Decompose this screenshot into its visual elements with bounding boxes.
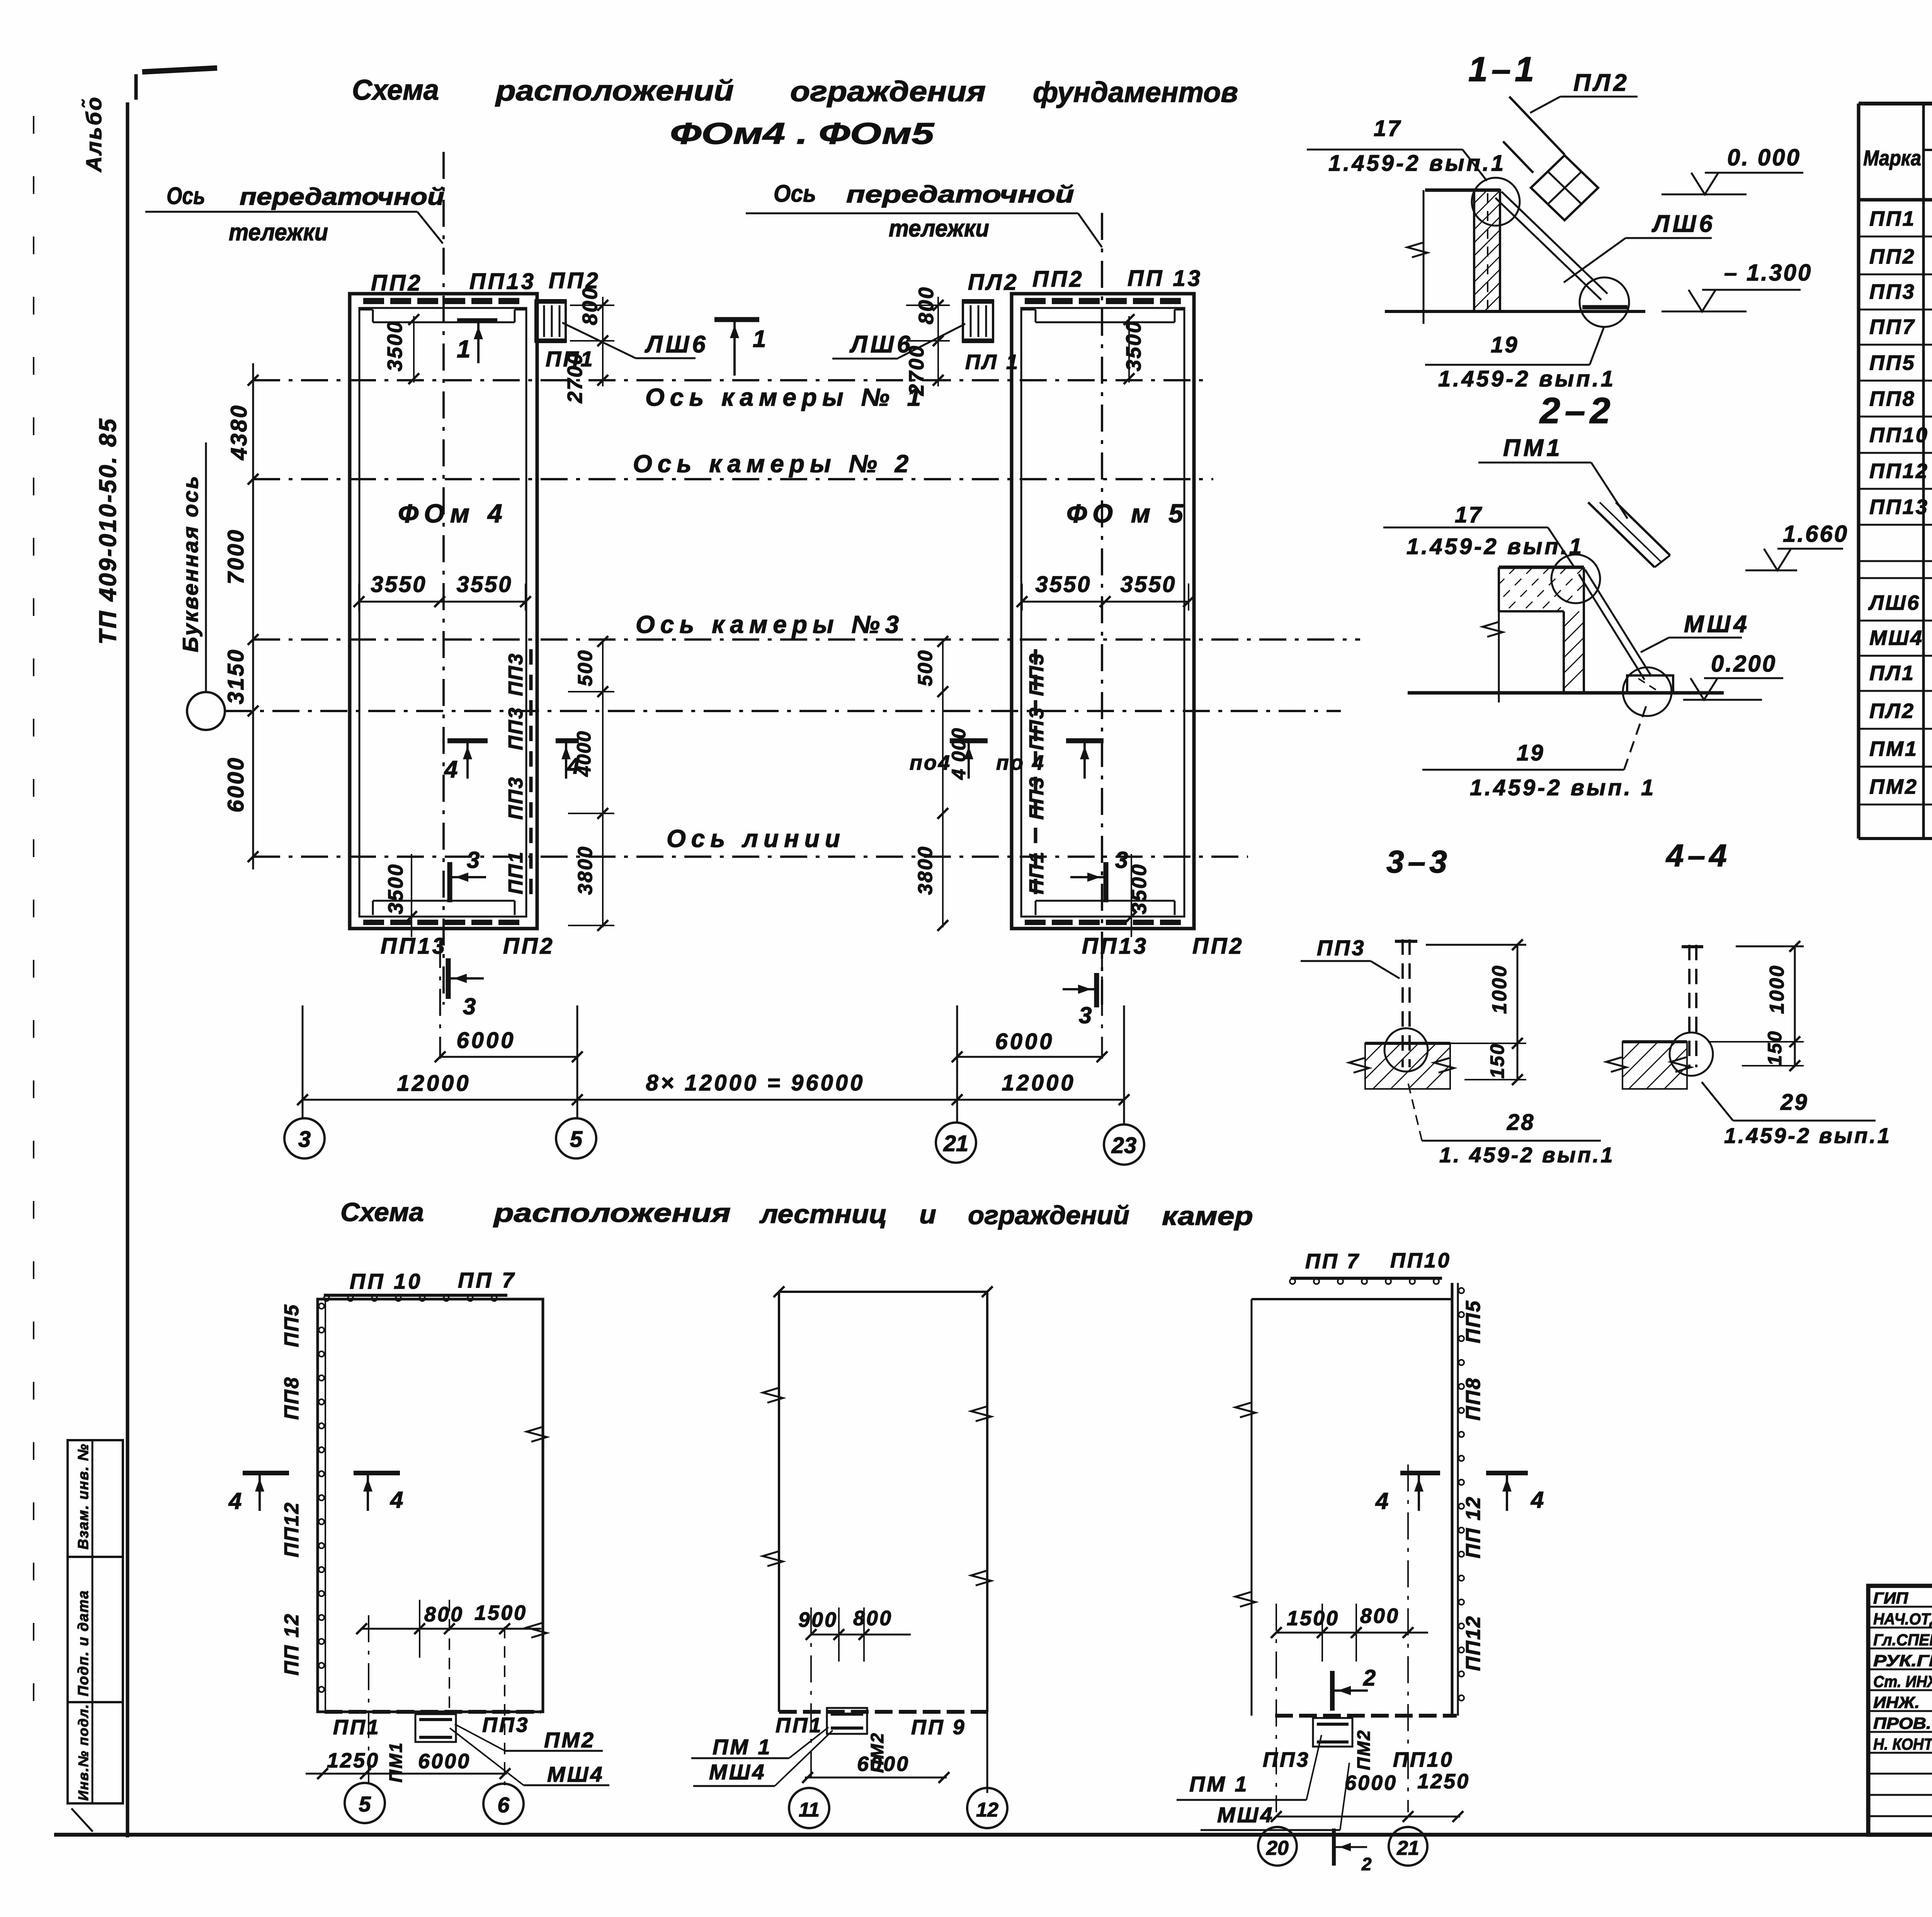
svg-text:900: 900 — [798, 1608, 838, 1631]
svg-text:по 4: по 4 — [996, 751, 1045, 774]
svg-text:ПП8: ПП8 — [1869, 387, 1916, 410]
svg-text:МШ4: МШ4 — [709, 1760, 766, 1784]
svg-text:ФО м 5: ФО м 5 — [1066, 499, 1189, 528]
svg-text:Схема: Схема — [340, 1197, 424, 1227]
svg-text:ЛШ6: ЛШ6 — [645, 331, 709, 358]
svg-text:ПП7: ПП7 — [1869, 315, 1916, 338]
svg-text:тележки: тележки — [889, 215, 989, 242]
svg-text:500: 500 — [574, 649, 597, 686]
svg-text:ПП2: ПП2 — [1869, 245, 1916, 268]
svg-text:ПП10: ПП10 — [1390, 1249, 1451, 1272]
svg-text:ПП3: ПП3 — [1317, 936, 1366, 960]
svg-text:Подп. и дата: Подп. и дата — [75, 1590, 92, 1696]
svg-text:3550: 3550 — [371, 572, 427, 597]
svg-text:11: 11 — [799, 1799, 820, 1821]
svg-text:ПП 12: ПП 12 — [1462, 1496, 1485, 1558]
svg-text:МШ4: МШ4 — [547, 1762, 604, 1786]
svg-text:1000: 1000 — [1488, 964, 1511, 1014]
svg-text:1500: 1500 — [474, 1601, 527, 1624]
svg-text:800: 800 — [1360, 1604, 1400, 1628]
svg-text:3500: 3500 — [1122, 320, 1145, 371]
svg-text:ИНЖ.: ИНЖ. — [1873, 1693, 1920, 1711]
svg-text:4: 4 — [444, 756, 459, 783]
svg-text:ПМ1: ПМ1 — [386, 1742, 406, 1783]
svg-text:ПМ2: ПМ2 — [1869, 775, 1918, 798]
svg-text:Ось камеры №3: Ось камеры №3 — [636, 611, 904, 638]
svg-text:Н. КОНТР.: Н. КОНТР. — [1873, 1735, 1932, 1753]
svg-text:ПП10: ПП10 — [1393, 1748, 1454, 1771]
svg-text:4: 4 — [390, 1487, 405, 1513]
svg-text:ограждений: ограждений — [968, 1201, 1129, 1230]
svg-text:6000: 6000 — [456, 1028, 515, 1053]
svg-text:12: 12 — [976, 1799, 998, 1821]
svg-text:ПП 12: ПП 12 — [281, 1613, 303, 1675]
svg-text:ПП3: ПП3 — [1869, 280, 1916, 303]
svg-text:Ось: Ось — [774, 180, 816, 207]
svg-text:ПП 9: ПП 9 — [911, 1716, 966, 1739]
svg-text:3: 3 — [1115, 847, 1129, 873]
svg-text:4380: 4380 — [226, 404, 252, 460]
svg-text:передаточной: передаточной — [846, 181, 1074, 208]
svg-text:3: 3 — [463, 993, 477, 1019]
svg-text:3550: 3550 — [1035, 572, 1091, 597]
svg-text:ЛШ6: ЛШ6 — [849, 331, 913, 358]
svg-text:8× 12000 = 96000: 8× 12000 = 96000 — [646, 1070, 865, 1095]
svg-text:2: 2 — [1363, 1665, 1377, 1691]
svg-text:ЛШ6: ЛШ6 — [1651, 211, 1716, 237]
svg-text:ПП12: ПП12 — [1869, 459, 1929, 483]
svg-text:6000: 6000 — [995, 1029, 1054, 1054]
svg-text:ПП1: ПП1 — [1869, 207, 1916, 230]
svg-text:1250: 1250 — [1417, 1770, 1470, 1793]
svg-text:Ось: Ось — [167, 183, 205, 209]
svg-text:Ось линии: Ось линии — [667, 825, 845, 852]
svg-text:НАЧ.ОТД.: НАЧ.ОТД. — [1873, 1610, 1932, 1628]
svg-text:ГИП: ГИП — [1873, 1589, 1908, 1607]
svg-text:1.660: 1.660 — [1783, 521, 1849, 547]
svg-text:4: 4 — [228, 1488, 243, 1514]
svg-text:Ось камеры № 1: Ось камеры № 1 — [645, 383, 926, 411]
svg-text:3: 3 — [1079, 1002, 1093, 1028]
svg-text:по4: по4 — [910, 751, 951, 774]
svg-text:Гл.СПЕЦ.: Гл.СПЕЦ. — [1873, 1631, 1932, 1649]
svg-text:и: и — [919, 1200, 936, 1229]
svg-text:17: 17 — [1374, 116, 1402, 141]
svg-text:19: 19 — [1517, 740, 1545, 765]
svg-text:ТП 409-010-50. 85: ТП 409-010-50. 85 — [95, 417, 121, 645]
svg-text:1. 459-2 вып.1: 1. 459-2 вып.1 — [1439, 1143, 1615, 1167]
svg-text:ПМ 1: ПМ 1 — [713, 1735, 772, 1759]
svg-text:6000: 6000 — [857, 1752, 910, 1776]
svg-text:ПРОВ.: ПРОВ. — [1873, 1714, 1931, 1732]
svg-text:1: 1 — [753, 326, 767, 352]
svg-text:ПЛ 1: ПЛ 1 — [965, 350, 1020, 374]
svg-text:6000: 6000 — [223, 756, 248, 812]
svg-text:7000: 7000 — [223, 528, 248, 584]
svg-text:Альбо̃: Альбо̃ — [82, 96, 106, 173]
svg-text:6: 6 — [497, 1793, 510, 1817]
svg-text:1–1: 1–1 — [1468, 50, 1538, 89]
svg-text:ПП5: ПП5 — [1462, 1300, 1485, 1344]
svg-text:2: 2 — [1361, 1854, 1373, 1874]
svg-text:ПП1: ПП1 — [776, 1714, 823, 1737]
svg-text:ПП 13: ПП 13 — [1128, 266, 1202, 291]
svg-text:Взам. инв. №: Взам. инв. № — [75, 1443, 92, 1550]
svg-text:1: 1 — [457, 335, 472, 363]
svg-text:ПМ1: ПМ1 — [1869, 737, 1918, 760]
svg-text:передаточной: передаточной — [240, 184, 444, 210]
svg-text:150: 150 — [1486, 1043, 1508, 1078]
svg-text:6000: 6000 — [1345, 1771, 1397, 1795]
svg-text:ПП2: ПП2 — [503, 934, 555, 959]
svg-text:Ст. ИНЖ.: Ст. ИНЖ. — [1873, 1672, 1932, 1691]
svg-text:ПП13: ПП13 — [469, 269, 536, 294]
svg-text:19: 19 — [1491, 332, 1519, 357]
svg-text:3550: 3550 — [1120, 572, 1176, 597]
svg-text:ПМ2: ПМ2 — [1354, 1729, 1374, 1770]
svg-text:ПП13: ПП13 — [1082, 934, 1148, 959]
svg-text:1000: 1000 — [1766, 964, 1788, 1014]
svg-text:МШ4: МШ4 — [1869, 626, 1923, 650]
svg-text:1.459-2 вып.1: 1.459-2 вып.1 — [1406, 534, 1584, 559]
svg-text:3: 3 — [467, 847, 481, 873]
svg-text:500: 500 — [914, 649, 937, 686]
svg-text:2700: 2700 — [563, 352, 587, 403]
svg-text:17: 17 — [1455, 502, 1483, 527]
svg-text:тележки: тележки — [229, 219, 328, 246]
svg-text:29: 29 — [1780, 1090, 1809, 1115]
svg-text:12000: 12000 — [1002, 1070, 1075, 1095]
svg-text:ПП8: ПП8 — [1462, 1377, 1485, 1421]
svg-text:ПП3: ПП3 — [505, 653, 527, 696]
svg-text:6000: 6000 — [418, 1750, 471, 1773]
svg-text:3800: 3800 — [914, 845, 937, 895]
svg-text:ПП3: ПП3 — [1263, 1748, 1310, 1771]
svg-text:4–4: 4–4 — [1665, 838, 1731, 873]
svg-text:– 1.300: – 1.300 — [1724, 260, 1812, 286]
svg-text:5: 5 — [570, 1127, 583, 1152]
svg-text:1.459-2 вып.1: 1.459-2 вып.1 — [1438, 366, 1616, 391]
svg-text:Марка: Марка — [1863, 146, 1921, 170]
svg-text:ПЛ2: ПЛ2 — [968, 270, 1019, 295]
svg-text:0.200: 0.200 — [1711, 651, 1777, 677]
svg-text:21: 21 — [943, 1131, 969, 1156]
svg-text:лестниц: лестниц — [759, 1199, 887, 1229]
svg-text:ПП 7: ПП 7 — [1305, 1250, 1361, 1273]
svg-text:МШ4: МШ4 — [1217, 1803, 1274, 1827]
svg-text:0. 000: 0. 000 — [1727, 145, 1801, 170]
svg-text:Схема: Схема — [352, 74, 439, 106]
svg-text:4: 4 — [1375, 1488, 1390, 1514]
svg-text:ПП12: ПП12 — [281, 1502, 303, 1558]
svg-text:камер: камер — [1162, 1201, 1253, 1231]
svg-text:ПМ 1: ПМ 1 — [1189, 1772, 1249, 1796]
svg-text:1.459-2 вып. 1: 1.459-2 вып. 1 — [1470, 775, 1656, 800]
svg-text:2–2: 2–2 — [1539, 390, 1615, 431]
svg-text:ПП10: ПП10 — [1869, 424, 1929, 447]
svg-text:3150: 3150 — [223, 648, 248, 704]
svg-text:1.459-2 вып.1: 1.459-2 вып.1 — [1724, 1123, 1891, 1148]
svg-text:ПП13: ПП13 — [381, 934, 447, 959]
svg-text:800: 800 — [424, 1603, 464, 1626]
svg-text:ФОм 4: ФОм 4 — [398, 499, 508, 528]
svg-text:800: 800 — [853, 1607, 893, 1630]
svg-text:ПП13: ПП13 — [1869, 495, 1929, 519]
svg-text:ПП3: ПП3 — [505, 776, 527, 820]
svg-text:РУК.ГР.: РУК.ГР. — [1873, 1652, 1932, 1670]
svg-text:3800: 3800 — [574, 845, 597, 895]
svg-text:ПЛ2: ПЛ2 — [1869, 699, 1915, 723]
svg-text:ПП 7: ПП 7 — [458, 1268, 516, 1292]
svg-text:150: 150 — [1764, 1030, 1786, 1066]
svg-text:3500: 3500 — [383, 320, 406, 371]
svg-text:3550: 3550 — [456, 572, 512, 597]
svg-text:3: 3 — [298, 1127, 311, 1152]
svg-text:1250: 1250 — [327, 1749, 379, 1772]
svg-text:23: 23 — [1111, 1133, 1137, 1158]
svg-text:расположения: расположения — [493, 1198, 731, 1228]
svg-text:1500: 1500 — [1287, 1607, 1339, 1630]
svg-text:ПП1: ПП1 — [505, 851, 527, 895]
svg-text:4: 4 — [1531, 1487, 1545, 1513]
svg-text:ПП2: ПП2 — [371, 270, 423, 296]
svg-text:ПП3: ПП3 — [505, 707, 527, 750]
svg-text:ПМ2: ПМ2 — [544, 1728, 595, 1752]
svg-text:МШ4: МШ4 — [1684, 611, 1750, 638]
svg-text:3–3: 3–3 — [1386, 844, 1451, 879]
svg-text:Буквенная ось: Буквенная ось — [178, 475, 202, 652]
svg-text:Ось камеры № 2: Ось камеры № 2 — [633, 450, 914, 478]
svg-text:ПП3: ПП3 — [482, 1713, 530, 1737]
svg-text:ПП1: ПП1 — [333, 1716, 381, 1739]
svg-text:расположений: расположений — [495, 75, 734, 107]
svg-text:3500: 3500 — [384, 863, 407, 914]
svg-text:21: 21 — [1396, 1837, 1419, 1859]
svg-text:ФОм4 . ФОм5: ФОм4 . ФОм5 — [670, 116, 935, 150]
svg-text:ограждения: ограждения — [790, 75, 986, 107]
svg-text:Инв.№ подл.: Инв.№ подл. — [75, 1704, 91, 1801]
svg-text:ПЛ2: ПЛ2 — [1573, 70, 1630, 96]
svg-text:20: 20 — [1266, 1837, 1289, 1859]
svg-text:28: 28 — [1507, 1110, 1535, 1135]
svg-text:ПП8: ПП8 — [281, 1376, 303, 1420]
svg-text:ПП5: ПП5 — [281, 1304, 303, 1347]
svg-text:12000: 12000 — [397, 1071, 471, 1096]
svg-text:фундаментов: фундаментов — [1033, 76, 1238, 108]
svg-text:5: 5 — [359, 1792, 371, 1816]
svg-text:ПЛ1: ПЛ1 — [1869, 662, 1915, 685]
svg-text:ЛШ6: ЛШ6 — [1868, 591, 1920, 614]
svg-text:ПП2: ПП2 — [1032, 267, 1084, 292]
svg-text:4 000: 4 000 — [948, 727, 969, 780]
svg-text:ПП12: ПП12 — [1462, 1615, 1485, 1671]
svg-text:4000: 4000 — [573, 730, 595, 777]
svg-text:ПП2: ПП2 — [1192, 934, 1244, 959]
svg-text:ПП5: ПП5 — [1869, 351, 1916, 374]
svg-text:ПП 10: ПП 10 — [350, 1269, 422, 1293]
svg-text:ПМ1: ПМ1 — [1503, 435, 1563, 461]
